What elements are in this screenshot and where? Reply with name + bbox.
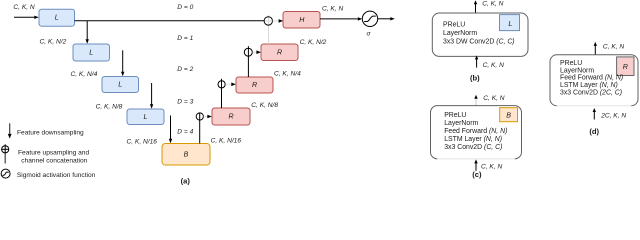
wire H to sigmoid arrow bbox=[320, 17, 362, 20]
svg-text:B: B bbox=[184, 150, 189, 158]
svg-text:C, K, N: C, K, N bbox=[322, 5, 343, 12]
wire upsample R1 to concat0 faint bbox=[268, 15, 270, 44]
svg-text:Feed Forward (N, N): Feed Forward (N, N) bbox=[560, 75, 623, 82]
svg-text:(a): (a) bbox=[181, 176, 191, 185]
node label C,K,N/8 right bbox=[251, 102, 278, 109]
svg-text:C, K, N/2: C, K, N/2 bbox=[40, 38, 67, 45]
node label C,K,N/4 left bbox=[71, 71, 98, 78]
svg-text:channel concatenation: channel concatenation bbox=[21, 157, 87, 164]
svg-text:D = 0: D = 0 bbox=[177, 4, 193, 11]
wire concat0 to H arrow bbox=[273, 19, 284, 23]
node label D=4 bbox=[177, 129, 193, 136]
svg-text:2C, K, N: 2C, K, N bbox=[600, 113, 626, 120]
wire concat2 to R2 arrow bbox=[225, 83, 236, 87]
node label C,K,N output bbox=[322, 5, 343, 12]
svg-text:D = 3: D = 3 bbox=[177, 98, 193, 105]
legend text downsampling bbox=[17, 129, 84, 136]
svg-text:L: L bbox=[89, 49, 93, 57]
panel b text Conv bbox=[443, 39, 515, 46]
svg-text:D = 1: D = 1 bbox=[177, 35, 193, 42]
panel d top arrow bbox=[594, 42, 597, 55]
node sigma label bbox=[367, 31, 372, 38]
panel c container bbox=[431, 106, 522, 159]
svg-text:L: L bbox=[118, 81, 122, 89]
node label C,K,N/4 right bbox=[274, 71, 301, 78]
block L1 bbox=[73, 44, 110, 61]
panel c chip B bbox=[500, 108, 518, 122]
node label C,K,N/2 left bbox=[40, 38, 67, 45]
node input label C,K,N bbox=[13, 4, 34, 11]
wire upsample R3 to concat2 bbox=[221, 79, 223, 108]
svg-text:C, K, N: C, K, N bbox=[482, 0, 503, 7]
panel d chip R bbox=[617, 57, 634, 76]
node label C,K,N/2 right bbox=[300, 39, 327, 46]
legend downsample arrow bbox=[8, 123, 12, 138]
panel c top label bbox=[483, 95, 504, 102]
svg-text:3x3 Conv2D (C, C): 3x3 Conv2D (C, C) bbox=[444, 144, 502, 151]
svg-text:C, K, N/8: C, K, N/8 bbox=[251, 102, 278, 109]
svg-text:Feature upsampling and: Feature upsampling and bbox=[18, 149, 89, 156]
block L2 bbox=[102, 77, 139, 93]
panel b chip L bbox=[500, 15, 520, 31]
svg-text:C, K, N/4: C, K, N/4 bbox=[274, 71, 301, 78]
panel d bottom arrow bbox=[593, 108, 596, 120]
panel c text FeedForward bbox=[444, 128, 507, 135]
panel d text Conv bbox=[560, 90, 622, 97]
svg-text:LSTM Layer (N, N): LSTM Layer (N, N) bbox=[444, 136, 502, 143]
block H bbox=[283, 12, 320, 29]
panel d bottom label bbox=[600, 113, 626, 120]
panel b caption bbox=[470, 73, 480, 82]
svg-text:C, K, N: C, K, N bbox=[603, 43, 624, 50]
svg-text:LSTM Layer (N, N): LSTM Layer (N, N) bbox=[560, 82, 618, 89]
wire downsample arrow D0 to D1 bbox=[86, 21, 89, 44]
block R1 bbox=[261, 44, 298, 61]
svg-text:L: L bbox=[55, 14, 59, 22]
wire upsample R2 to concat1 bbox=[247, 46, 249, 77]
panel c bottom arrow bbox=[474, 159, 477, 170]
svg-text:C, K, N/16: C, K, N/16 bbox=[211, 137, 242, 144]
svg-text:R: R bbox=[252, 81, 257, 89]
panel b top arrow bbox=[474, 0, 477, 13]
panel d text LSTM bbox=[560, 82, 618, 89]
block B bottleneck bbox=[162, 144, 210, 166]
legend sigmoid symbol bbox=[1, 169, 10, 178]
node concat circle D0 bbox=[264, 17, 277, 25]
svg-text:C, K, N: C, K, N bbox=[483, 62, 504, 69]
wire concat3 to R3 arrow bbox=[204, 115, 212, 119]
wire concat1 to R1 arrow bbox=[253, 50, 262, 54]
svg-text:B: B bbox=[506, 112, 511, 120]
svg-text:C, K, N: C, K, N bbox=[481, 164, 502, 171]
wire downsample arrow D2 to D3 bbox=[150, 83, 153, 109]
svg-text:C, K, N/2: C, K, N/2 bbox=[300, 39, 327, 46]
wire upsample B to concat3 bbox=[199, 113, 201, 144]
panel b bottom arrow bbox=[475, 55, 478, 67]
svg-text:(b): (b) bbox=[470, 73, 480, 82]
legend text sigmoid bbox=[17, 172, 96, 179]
svg-text:Feature downsampling: Feature downsampling bbox=[17, 129, 84, 136]
svg-text:(c): (c) bbox=[472, 170, 482, 179]
node concat circle D1 bbox=[244, 48, 252, 56]
node label D=0 bbox=[177, 4, 193, 11]
svg-text:PReLU: PReLU bbox=[444, 112, 466, 119]
svg-text:D = 2: D = 2 bbox=[177, 66, 193, 73]
panel c caption bbox=[472, 170, 482, 179]
block R2 bbox=[236, 77, 273, 93]
wire downsample arrow D1 to D2 bbox=[121, 50, 124, 76]
svg-text:C, K, N/8: C, K, N/8 bbox=[96, 104, 123, 111]
svg-text:D = 4: D = 4 bbox=[177, 129, 193, 136]
svg-text:C, K, N: C, K, N bbox=[13, 4, 34, 11]
panel c text PReLU bbox=[444, 112, 466, 119]
node label C,K,N/16 right bbox=[211, 137, 242, 144]
panel d caption bbox=[589, 127, 599, 136]
block R3 bbox=[212, 108, 250, 125]
panel d text LayerNorm bbox=[560, 67, 594, 74]
svg-text:3x3 Conv2D (2C, C): 3x3 Conv2D (2C, C) bbox=[560, 90, 622, 97]
svg-text:C, K, N/16: C, K, N/16 bbox=[127, 138, 158, 145]
svg-text:R: R bbox=[623, 63, 628, 71]
svg-text:LayerNorm: LayerNorm bbox=[443, 30, 477, 37]
svg-text:C, K, N/4: C, K, N/4 bbox=[71, 71, 98, 78]
svg-text:R: R bbox=[277, 48, 282, 56]
svg-text:R: R bbox=[228, 113, 233, 121]
svg-text:H: H bbox=[299, 16, 305, 24]
svg-text:LayerNorm: LayerNorm bbox=[560, 67, 594, 74]
wire sigmoid output arrow bbox=[378, 17, 395, 20]
legend text upsampling line1 bbox=[18, 149, 89, 156]
wire skip D=0 bbox=[75, 20, 265, 22]
node label C,K,N/8 left bbox=[96, 104, 123, 111]
node concat circle D3 bbox=[196, 113, 203, 120]
block L0 bbox=[39, 9, 75, 26]
legend upsample concat symbol bbox=[2, 144, 9, 163]
svg-text:Sigmoid activation function: Sigmoid activation function bbox=[17, 172, 96, 179]
svg-text:C, K, N: C, K, N bbox=[483, 95, 504, 102]
panel b container bbox=[432, 13, 528, 56]
svg-text:(d): (d) bbox=[589, 127, 599, 136]
panel c top arrow bbox=[474, 95, 477, 106]
node caption (a) bbox=[181, 176, 191, 185]
panel d container bbox=[550, 55, 638, 106]
svg-text:L: L bbox=[144, 113, 148, 121]
svg-text:L: L bbox=[508, 20, 512, 28]
svg-text:PReLU: PReLU bbox=[560, 60, 582, 67]
panel d top label bbox=[603, 43, 624, 50]
panel c bottom label bbox=[481, 164, 502, 171]
node label D=1 bbox=[177, 35, 193, 42]
panel b bottom label bbox=[483, 62, 504, 69]
node label D=2 bbox=[177, 66, 193, 73]
wire input arrow bbox=[14, 16, 39, 19]
svg-text:PReLU: PReLU bbox=[443, 22, 465, 29]
wire downsample arrow D3 to B bbox=[169, 116, 172, 144]
node label D=3 bbox=[177, 98, 193, 105]
node sigmoid circle bbox=[362, 11, 377, 26]
panel b text PReLU bbox=[443, 22, 465, 29]
legend text upsampling line2 bbox=[21, 157, 87, 164]
panel c text LSTM bbox=[444, 136, 502, 143]
node label C,K,N/16 left bbox=[127, 138, 158, 145]
svg-text:Feed Forward (N, N): Feed Forward (N, N) bbox=[444, 128, 507, 135]
svg-text:3x3 DW Conv2D (C, C): 3x3 DW Conv2D (C, C) bbox=[443, 39, 515, 46]
panel d text FeedForward bbox=[560, 75, 623, 82]
node concat circle D2 bbox=[218, 81, 225, 88]
panel d text PReLU bbox=[560, 60, 582, 67]
panel b text LayerNorm bbox=[443, 30, 477, 37]
svg-text:LayerNorm: LayerNorm bbox=[444, 120, 478, 127]
block L3 bbox=[127, 109, 164, 125]
panel c text Conv bbox=[444, 144, 502, 151]
panel c text LayerNorm bbox=[444, 120, 478, 127]
panel b top label bbox=[482, 0, 503, 7]
